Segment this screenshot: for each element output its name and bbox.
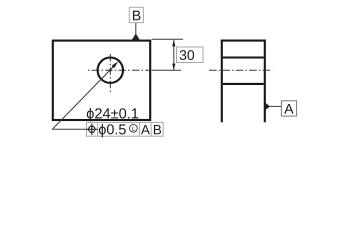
leader line diagonal through hole — [52, 64, 116, 130]
datum B leader line — [135, 23, 137, 35]
datum ref B text — [154, 125, 161, 134]
dimension 30 label box — [177, 47, 204, 63]
feature control frame divider 3 — [150, 122, 152, 136]
datum B triangle — [132, 34, 140, 40]
datum ref A text — [141, 125, 150, 134]
side view center line — [209, 69, 273, 71]
front view plate outline — [53, 41, 150, 120]
position symbol vertical line — [91, 124, 93, 136]
feature control frame outline — [87, 122, 164, 136]
tolerance value text — [99, 124, 126, 137]
datum A label box — [281, 101, 296, 116]
hole center dot — [109, 69, 112, 72]
datum B label box — [129, 7, 143, 22]
side view top edge — [221, 40, 266, 42]
side view right edge — [264, 40, 266, 123]
LMC modifier circle — [130, 124, 138, 132]
feature control frame divider 1 — [97, 122, 99, 136]
leader horizontal segment to frame — [52, 128, 86, 130]
hole circle — [98, 57, 123, 82]
side view left edge — [221, 40, 223, 123]
position symbol horizontal line — [86, 128, 97, 130]
dimension 30 arrow up — [172, 40, 175, 47]
dimension text phi24 — [87, 108, 138, 122]
dimension 30 extension line top — [152, 38, 183, 40]
hole center line vertical — [109, 54, 111, 94]
side view hole top edge — [223, 56, 264, 58]
leader arrowhead on circle — [112, 61, 119, 68]
dimension 30 arrow down — [172, 64, 175, 71]
datum A triangle — [265, 103, 270, 111]
LMC modifier L — [132, 127, 135, 131]
side view hole bottom edge — [223, 83, 264, 85]
datum A leader line — [270, 105, 281, 107]
feature control frame divider 2 — [138, 122, 140, 136]
hole center line horizontal — [88, 69, 149, 71]
dimension 30 extension line bottom — [152, 69, 181, 71]
position symbol circle — [89, 126, 95, 132]
dimension 30 line — [173, 40, 175, 69]
